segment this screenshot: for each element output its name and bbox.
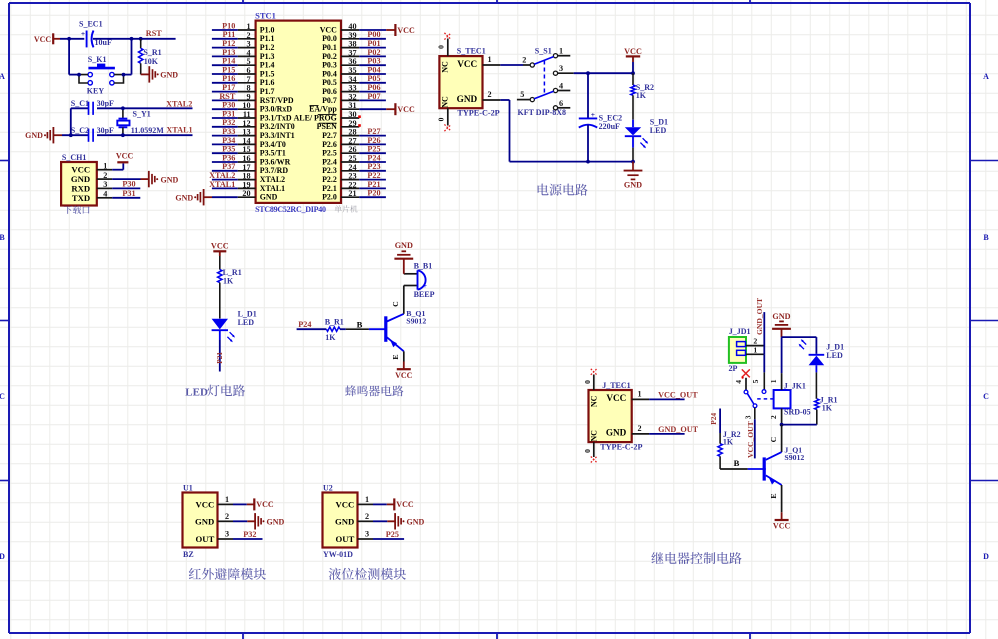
net label VCC_OUT — [658, 390, 698, 399]
mcu pin 1 P1.0 — [238, 22, 275, 34]
svg-text:31: 31 — [348, 101, 356, 110]
J_TEC1 pin 1 — [632, 390, 649, 400]
svg-text:4: 4 — [559, 82, 563, 91]
module U1 pin 3 OUT — [195, 530, 233, 544]
mcu pin 7 P1.6 — [238, 75, 275, 87]
power ground U2 — [395, 513, 424, 529]
J_TEC1 bottom pin 0 — [583, 442, 594, 457]
power port VCC at mcu pin 40 — [395, 24, 415, 36]
module U2 pin 2 GND — [335, 512, 373, 526]
svg-text:P2.7: P2.7 — [322, 131, 337, 140]
svg-text:P14: P14 — [222, 57, 235, 66]
module U2 pin 1 VCC — [335, 495, 373, 509]
svg-text:30: 30 — [348, 110, 356, 119]
module U2 pin 3 OUT — [335, 530, 373, 544]
wire led to resistor — [815, 372, 817, 398]
svg-text:P16: P16 — [222, 74, 235, 83]
junction cap bottom — [586, 160, 590, 164]
net label P32 — [243, 530, 256, 539]
junction led bottom — [631, 160, 635, 164]
wire net P24 from mcu pin 25 — [359, 161, 386, 163]
wire net P30 to mcu pin 10 — [212, 108, 238, 110]
no-ERC cross relay common — [742, 369, 750, 378]
net label P30 — [222, 101, 235, 110]
svg-text:RST/VPD: RST/VPD — [260, 96, 294, 105]
net label P21 — [367, 180, 380, 189]
net label P33 — [222, 127, 235, 136]
mcu U STC1 body — [256, 21, 341, 203]
resistor S_R1 — [139, 39, 162, 75]
connector S_CH1 pin 4 TXD — [72, 190, 112, 203]
relay lever — [747, 394, 753, 404]
wire U2 vcc — [373, 503, 394, 505]
wire reset rail — [60, 38, 176, 40]
svg-text:1: 1 — [487, 55, 491, 64]
net label P31 — [122, 189, 135, 198]
connector S_TEC1 designator — [457, 47, 486, 56]
switch S_S1 contact 2 — [522, 55, 534, 67]
wire net P16 to mcu pin 7 — [212, 82, 238, 84]
svg-text:C: C — [983, 392, 989, 401]
net label P21 rotated — [215, 352, 224, 364]
svg-text:SRD-05: SRD-05 — [784, 408, 811, 417]
svg-text:GND: GND — [395, 241, 413, 250]
switch S_S1 lever 2-1 — [534, 57, 553, 65]
net label P04 — [367, 65, 380, 74]
svg-text:2: 2 — [225, 512, 229, 521]
svg-text:NC: NC — [441, 61, 450, 73]
svg-text:3: 3 — [103, 180, 107, 189]
svg-text:2: 2 — [638, 424, 642, 433]
buzzer B_B1 BEEP — [404, 262, 435, 299]
svg-text:+: + — [423, 282, 427, 290]
wire emitter relay to vcc — [769, 485, 782, 512]
mcu pin 26 P2.5 — [322, 145, 359, 157]
wire net XTAL2 to mcu pin 18 — [212, 179, 238, 181]
J_TEC1 pin NC bottom-left — [590, 430, 599, 442]
svg-text:1: 1 — [225, 495, 229, 504]
svg-text:VCC_OUT: VCC_OUT — [658, 390, 698, 399]
svg-text:0: 0 — [436, 45, 445, 49]
S_TEC1 pin 2 — [483, 90, 501, 100]
svg-text:6: 6 — [559, 99, 563, 108]
net label VCC_OUT rotated — [746, 421, 755, 458]
svg-text:VCC: VCC — [195, 499, 214, 509]
wire switch pin3 to vcc rail — [574, 72, 633, 74]
svg-text:29: 29 — [348, 119, 356, 128]
junction crystal xtal2 — [121, 106, 125, 110]
svg-text:XTAL1: XTAL1 — [260, 184, 285, 193]
caption buzzer circuit — [345, 385, 403, 396]
svg-text:RST: RST — [219, 92, 235, 101]
svg-text:3: 3 — [365, 530, 369, 539]
svg-text:GND: GND — [25, 131, 43, 140]
svg-text:P1.0: P1.0 — [260, 25, 275, 34]
svg-text:2: 2 — [103, 171, 107, 180]
module U2 designator — [323, 484, 333, 493]
mcu pin 33 P0.6 — [322, 84, 359, 96]
svg-text:P2.3: P2.3 — [322, 166, 337, 175]
svg-text:VCC: VCC — [116, 151, 134, 160]
switch S_S1 contact 1 — [553, 47, 570, 58]
svg-text:P34: P34 — [222, 136, 235, 145]
svg-text:P06: P06 — [367, 83, 380, 92]
svg-text:A: A — [983, 72, 989, 81]
svg-text:5: 5 — [520, 90, 524, 99]
wire net P27 from mcu pin 28 — [359, 135, 386, 137]
svg-text:20: 20 — [242, 189, 250, 198]
svg-text:P12: P12 — [222, 39, 235, 48]
svg-text:S_R1: S_R1 — [143, 48, 161, 57]
svg-text:10uF: 10uF — [95, 38, 112, 47]
svg-text:P0.7: P0.7 — [322, 96, 337, 105]
svg-text:4: 4 — [247, 48, 251, 57]
svg-text:D: D — [0, 552, 5, 561]
svg-text:B: B — [0, 233, 5, 242]
relay coil pin 1 — [769, 373, 781, 390]
connector S_CH1 body — [61, 162, 97, 206]
wire net XTAL1 to mcu pin 19 — [212, 187, 238, 189]
wire net P07 from mcu pin 32 — [359, 99, 386, 101]
svg-text:1: 1 — [769, 379, 778, 383]
svg-text:P3.4/T0: P3.4/T0 — [260, 140, 286, 149]
wire emitter E to vcc — [391, 351, 404, 361]
svg-text:P25: P25 — [386, 530, 399, 539]
mcu pin 31 EA/Vpp — [309, 101, 359, 113]
power ground power circuit — [624, 162, 643, 190]
mcu pin 2 P1.1 — [238, 31, 275, 43]
module U1 designator — [183, 484, 193, 493]
wire gnd rail to coil — [781, 337, 783, 373]
svg-text:RST: RST — [146, 29, 162, 38]
resistor J_R1 — [815, 395, 838, 424]
wire net P01 from mcu pin 38 — [359, 47, 386, 49]
svg-text:38: 38 — [348, 40, 356, 49]
overline PROG — [318, 113, 337, 115]
power ground U1 — [255, 513, 284, 529]
svg-text:P02: P02 — [367, 48, 380, 57]
net label XTAL2 — [209, 171, 235, 180]
svg-text:12: 12 — [242, 119, 250, 128]
svg-text:5: 5 — [751, 379, 760, 383]
svg-text:3: 3 — [247, 40, 251, 49]
svg-text:NC: NC — [590, 395, 599, 407]
wire net P34 to mcu pin 14 — [212, 143, 238, 145]
connector S_CH1 designator — [62, 153, 86, 162]
wire net P14 to mcu pin 5 — [212, 64, 238, 66]
power ground S_CH1 — [149, 171, 179, 187]
mcu pin 16 P3.6/WR — [238, 154, 291, 166]
wire net P26 from mcu pin 27 — [359, 143, 386, 145]
svg-text:GND: GND — [772, 312, 790, 321]
J_TEC1 top pin 0 — [583, 375, 594, 391]
svg-text:TYPE-C-2P: TYPE-C-2P — [457, 108, 499, 117]
svg-text:17: 17 — [242, 163, 250, 172]
svg-text:J_JD1: J_JD1 — [729, 327, 751, 336]
mcu pin 27 P2.6 — [322, 136, 359, 148]
no-ERC cross J_TEC1 bottom — [591, 457, 597, 463]
svg-text:B_R1: B_R1 — [325, 318, 344, 327]
power ground crystal — [25, 127, 62, 143]
net label XTAL1 — [209, 180, 235, 189]
svg-text:2: 2 — [247, 31, 251, 40]
wire S_TEC1 pin1 to switch — [500, 64, 523, 66]
svg-text:LED: LED — [185, 386, 208, 398]
svg-text:KEY: KEY — [87, 86, 105, 95]
net label P26 — [367, 136, 380, 145]
svg-text:TXD: TXD — [72, 193, 90, 203]
wire S_CH1 vcc — [112, 164, 123, 170]
caption download port — [64, 206, 90, 214]
svg-text:VCC: VCC — [397, 105, 415, 114]
svg-text:B_B1: B_B1 — [414, 262, 433, 271]
net label P25 — [386, 530, 399, 539]
connector S_CH1 pin 1 VCC — [71, 162, 112, 175]
svg-text:P30: P30 — [222, 101, 235, 110]
svg-text:C: C — [391, 301, 400, 307]
svg-text:P10: P10 — [222, 21, 235, 30]
wire xtal1 rail — [62, 134, 193, 136]
zone letter D right — [983, 552, 989, 561]
svg-text:P2.5: P2.5 — [322, 149, 337, 158]
wire net P33 to mcu pin 13 — [212, 135, 238, 137]
net label P20 — [367, 189, 380, 198]
relay contact lower — [753, 404, 757, 408]
connector S_CH1 pin 3 RXD — [71, 180, 112, 193]
svg-text:A: A — [0, 72, 5, 81]
svg-text:P2.1: P2.1 — [322, 184, 337, 193]
svg-text:23: 23 — [348, 172, 356, 181]
wire collector relay — [769, 425, 782, 453]
svg-text:1: 1 — [638, 390, 642, 399]
svg-text:1K: 1K — [223, 276, 234, 285]
wire relay bottom rail — [782, 424, 817, 426]
svg-text:2: 2 — [753, 337, 757, 346]
svg-text:OUT: OUT — [195, 534, 214, 544]
wire power bottom rail — [510, 161, 634, 163]
svg-text:S9012: S9012 — [406, 317, 426, 326]
svg-text:P3.2/INT0: P3.2/INT0 — [260, 122, 295, 131]
svg-text:2: 2 — [522, 55, 526, 64]
connector S_TEC1 body — [439, 56, 482, 108]
zone letter B right — [983, 233, 989, 242]
power port VCC S_CH1 — [116, 151, 134, 162]
svg-text:3: 3 — [225, 530, 229, 539]
J_TEC1 pin NC top-left — [590, 395, 599, 407]
svg-text:B: B — [734, 458, 740, 468]
relay J_JK1 coil body — [774, 390, 791, 408]
svg-text:0: 0 — [583, 449, 592, 453]
svg-text:19: 19 — [242, 180, 250, 189]
connector J_TEC1 designator — [602, 381, 630, 390]
svg-text:21: 21 — [348, 189, 356, 198]
svg-text:28: 28 — [348, 128, 356, 137]
svg-text:VCC: VCC — [256, 500, 274, 509]
mcu pin 15 P3.5/T1 — [238, 145, 286, 157]
switch S_S1 contact 6 — [553, 99, 570, 110]
power port VCC relay — [773, 512, 791, 530]
mcu pin 5 P1.4 — [238, 57, 275, 69]
svg-text:P0.1: P0.1 — [322, 43, 337, 52]
svg-text:32: 32 — [348, 92, 356, 101]
svg-text:GND: GND — [175, 194, 193, 203]
svg-text:P1.4: P1.4 — [260, 61, 275, 70]
svg-text:P3.5/T1: P3.5/T1 — [260, 149, 286, 158]
wire net P22 from mcu pin 23 — [359, 179, 386, 181]
svg-text:P32: P32 — [243, 530, 256, 539]
no-ERC marker mcu pin 30 — [358, 115, 361, 118]
wire vcc from mcu pin 40 — [359, 29, 394, 31]
svg-text:33: 33 — [348, 84, 356, 93]
no-ERC cross S_TEC1 top — [444, 33, 451, 40]
svg-text:P0.0: P0.0 — [322, 34, 337, 43]
zone letter B left — [0, 233, 5, 242]
wire net P31 S_CH1 — [112, 197, 140, 199]
svg-text:P1.6: P1.6 — [260, 78, 275, 87]
svg-text:P11: P11 — [223, 30, 236, 39]
svg-text:P24: P24 — [298, 320, 311, 329]
svg-text:XTAL2: XTAL2 — [260, 175, 285, 184]
caption power circuit — [538, 184, 588, 196]
svg-text:S_C2: S_C2 — [71, 126, 89, 135]
zone letter C right — [983, 392, 989, 401]
svg-text:30pF: 30pF — [97, 126, 114, 135]
wire net P23 from mcu pin 24 — [359, 170, 386, 172]
wire xtal rail left vertical — [70, 108, 72, 135]
switch S_S1 lever 5-4 — [534, 91, 553, 99]
svg-text:S_C1: S_C1 — [71, 99, 89, 108]
mcu pin 38 P0.1 — [322, 40, 359, 52]
wire net P25 from mcu pin 26 — [359, 152, 386, 154]
svg-text:P0.6: P0.6 — [322, 87, 337, 96]
svg-text:TYPE-C-2P: TYPE-C-2P — [600, 443, 642, 452]
power port VCC at mcu pin 31 — [395, 103, 415, 115]
svg-text:XTAL1: XTAL1 — [209, 180, 235, 189]
svg-text:C: C — [0, 392, 5, 401]
svg-text:P24: P24 — [709, 413, 718, 425]
wire relay pin3 VCC_OUT — [743, 408, 754, 459]
wire xtal2 rail — [71, 107, 193, 109]
mcu pin 34 P0.5 — [322, 75, 359, 87]
capacitor S_C2 — [71, 126, 114, 142]
svg-text:GND: GND — [161, 175, 179, 184]
S_TEC1 pin 1 — [483, 55, 501, 65]
net label P24 — [367, 153, 380, 162]
net label P10 — [222, 21, 235, 30]
mcu pin 37 P0.2 — [322, 48, 359, 60]
svg-text:25: 25 — [348, 154, 356, 163]
svg-text:P35: P35 — [222, 145, 235, 154]
svg-text:P21: P21 — [367, 180, 380, 189]
svg-text:P2.6: P2.6 — [322, 140, 337, 149]
switch S_S1 contact 4 — [553, 82, 570, 93]
svg-text:4: 4 — [734, 380, 743, 384]
net label P35 — [222, 145, 235, 154]
wire net P20 from mcu pin 21 — [359, 196, 386, 198]
switch S_S1 gang dashed link — [543, 61, 545, 96]
svg-text:P37: P37 — [222, 162, 235, 171]
svg-text:LED: LED — [238, 318, 255, 327]
net label P13 — [222, 48, 235, 57]
junction key left — [77, 73, 81, 77]
svg-text:S_TEC1: S_TEC1 — [457, 47, 486, 56]
svg-text:1K: 1K — [723, 437, 734, 446]
relay coil pin 2 — [769, 408, 781, 423]
svg-text:14: 14 — [242, 136, 250, 145]
wire base B — [346, 319, 369, 329]
junction cap column — [586, 71, 590, 75]
mcu pin 25 P2.4 — [322, 154, 359, 166]
mcu pin 22 P2.1 — [322, 180, 359, 192]
svg-text:GND: GND — [606, 428, 627, 438]
net label P34 — [222, 136, 235, 145]
svg-text:XTAL2: XTAL2 — [166, 99, 192, 108]
net label P00 — [367, 30, 380, 39]
wire net P17 to mcu pin 8 — [212, 91, 238, 93]
svg-text:P20: P20 — [367, 189, 380, 198]
S_TEC1 bottom pin 0 — [436, 108, 447, 125]
svg-text:VCC: VCC — [457, 59, 477, 69]
svg-text:YW-01D: YW-01D — [323, 550, 353, 559]
net label P03 — [367, 57, 380, 66]
svg-text:220uF: 220uF — [599, 122, 620, 131]
svg-text:3: 3 — [743, 415, 752, 419]
net label P16 — [222, 74, 235, 83]
relay J_JK1 designator — [784, 382, 806, 391]
switch S_S1 contact 3 — [553, 64, 573, 75]
led L_D1 — [212, 310, 257, 343]
svg-text:GND: GND — [160, 70, 178, 79]
svg-text:2: 2 — [365, 512, 369, 521]
mcu pin 6 P1.5 — [238, 66, 275, 78]
svg-text:26: 26 — [348, 145, 356, 154]
svg-text:39: 39 — [348, 31, 356, 40]
svg-text:P31: P31 — [122, 189, 135, 198]
module U1 body — [183, 493, 218, 548]
module U1 part BZ — [183, 550, 194, 559]
power port VCC U1 — [254, 498, 274, 510]
junction crystal xtal1 — [121, 133, 125, 137]
net label P36 — [222, 153, 235, 162]
svg-text:7: 7 — [247, 75, 251, 84]
J_TEC1 pin VCC name — [606, 393, 626, 403]
net label P02 — [367, 48, 380, 57]
svg-text:VCC: VCC — [395, 371, 413, 380]
power port VCC led circuit — [211, 241, 229, 256]
svg-text:GND_OUT: GND_OUT — [658, 425, 699, 434]
net label P22 — [367, 171, 380, 180]
svg-text:16: 16 — [242, 154, 250, 163]
svg-text:P32: P32 — [222, 118, 235, 127]
svg-text:1: 1 — [103, 162, 107, 171]
mcu pin 21 P2.0 — [322, 189, 359, 201]
svg-text:D: D — [983, 552, 989, 561]
svg-text:3: 3 — [559, 64, 563, 73]
svg-text:4: 4 — [103, 190, 107, 199]
net label XTAL1 crystal — [166, 126, 192, 135]
power port VCC power circuit — [624, 47, 642, 73]
svg-text:GND: GND — [260, 193, 278, 202]
svg-text:P2.2: P2.2 — [322, 175, 337, 184]
svg-text:BEEP: BEEP — [414, 290, 435, 299]
led J_D1 — [799, 339, 844, 372]
connector S_TEC1 type text — [457, 108, 499, 117]
svg-text:15: 15 — [242, 145, 250, 154]
svg-text:0: 0 — [583, 380, 592, 384]
svg-text:1K: 1K — [636, 91, 647, 100]
svg-text:J_TEC1: J_TEC1 — [602, 381, 630, 390]
resistor J_R2 — [718, 409, 741, 470]
